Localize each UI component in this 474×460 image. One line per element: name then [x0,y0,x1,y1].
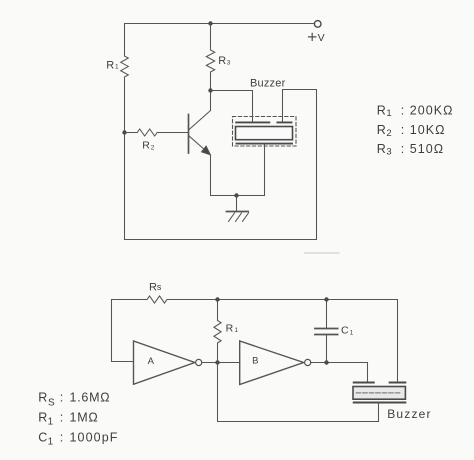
wire B output to buzzer [311,363,368,382]
svg-text:R2: R2 [142,140,155,152]
svg-text:R3: R3 [218,55,231,67]
node collector junction [208,88,212,92]
resistor RS [147,296,167,303]
svg-text:Buzzer: Buzzer [387,407,432,421]
svg-text:C1: C1 [341,324,354,336]
svg-text:RS:1.6MΩ: RS:1.6MΩ [38,391,110,409]
resistor R1 [121,56,129,77]
node rail-C1 junction [324,297,328,301]
wire A output down to bottom rail [217,363,219,422]
inverter U-B [240,341,311,385]
wire emitter to ground run [211,195,265,197]
wire left side (R1 branch) [124,24,126,240]
svg-text:V: V [318,32,325,44]
resistor R1b [214,300,221,363]
wire buzzer bottom plate to ground node [264,145,266,196]
wire rail right side down to buzzer [397,300,399,382]
node top rail junction [208,21,212,25]
svg-text:R2:10KΩ: R2:10KΩ [377,123,446,139]
svg-text:C1:1000pF: C1:1000pF [38,430,118,447]
scan artifact line [304,252,340,254]
node ground junction [234,193,238,197]
svg-text:R3:510Ω: R3:510Ω [377,142,444,158]
svg-text:R1:200KΩ: R1:200KΩ [377,103,454,119]
svg-text:R1: R1 [106,59,119,71]
buzzer BZ1 [233,117,297,147]
node C1 bottom junction [324,360,328,364]
inverter U-A [134,341,202,384]
resistor R2 [125,129,189,136]
wire top rail [125,23,315,25]
ground [227,196,249,222]
wire A output to B input [202,362,240,364]
wire bottom circuit top rail [112,299,398,301]
capacitor C1 [315,300,338,363]
wire bottom rail (bottom circuit) [218,421,379,423]
transistor Q1 [189,91,211,196]
svg-text:A: A [148,356,155,367]
svg-text:B: B [252,356,258,367]
wire bottom rail top circuit [125,239,317,241]
label +V [308,32,325,44]
terminal +V [314,21,321,28]
node A output junction [215,360,219,364]
node base junction [122,130,126,134]
svg-text:Buzzer: Buzzer [250,77,286,89]
node rail-R1 junction [215,297,219,301]
svg-text:R1: R1 [226,323,239,335]
svg-text:R1:1MΩ: R1:1MΩ [38,411,98,428]
buzzer BZ2 [353,383,405,422]
resistor R3 [206,24,214,91]
wire collector to buzzer electrode [211,91,253,123]
svg-text:Rs: Rs [149,282,162,294]
wire left side to inverter A input [112,300,134,362]
wire right side feedback [283,90,317,240]
